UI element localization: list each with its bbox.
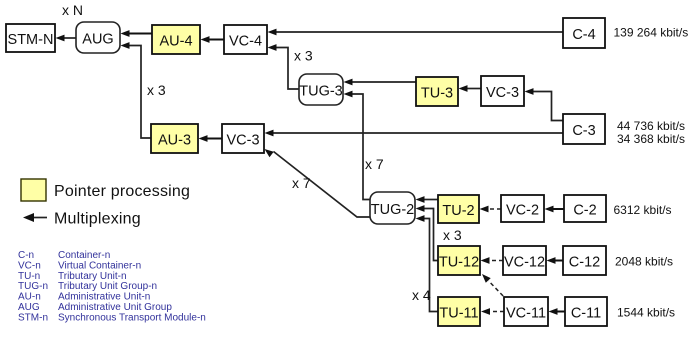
svg-text:VC-12: VC-12: [504, 255, 545, 271]
svg-text:C-11: C-11: [571, 306, 601, 322]
svg-text:C-n: C-n: [18, 250, 34, 261]
svg-text:Virtual Container-n: Virtual Container-n: [58, 260, 141, 271]
svg-text:STM-N: STM-N: [8, 32, 54, 48]
svg-text:TU-12: TU-12: [439, 255, 479, 271]
svg-text:VC-3: VC-3: [226, 133, 259, 149]
svg-text:Pointer processing: Pointer processing: [54, 183, 190, 200]
svg-text:TU-3: TU-3: [421, 86, 453, 102]
svg-text:6312 kbit/s: 6312 kbit/s: [614, 203, 672, 217]
svg-text:C-3: C-3: [572, 123, 595, 139]
svg-text:139 264 kbit/s: 139 264 kbit/s: [614, 26, 689, 40]
svg-text:Tributary Unit Group-n: Tributary Unit Group-n: [58, 281, 157, 292]
svg-text:VC-4: VC-4: [229, 34, 262, 50]
svg-text:VC-11: VC-11: [506, 306, 546, 322]
svg-text:2048 kbit/s: 2048 kbit/s: [615, 255, 673, 269]
svg-text:C-4: C-4: [572, 27, 595, 43]
svg-text:x 3: x 3: [294, 48, 313, 64]
svg-text:AUG: AUG: [18, 302, 40, 313]
svg-text:TUG-2: TUG-2: [371, 202, 415, 218]
svg-text:x 7: x 7: [292, 175, 311, 191]
svg-text:Tributary Unit-n: Tributary Unit-n: [58, 271, 127, 282]
svg-text:x 3: x 3: [147, 82, 166, 98]
svg-text:x 7: x 7: [365, 156, 384, 172]
svg-text:Container-n: Container-n: [58, 250, 110, 261]
svg-text:TUG-n: TUG-n: [18, 281, 48, 292]
svg-text:AU-4: AU-4: [159, 34, 192, 50]
svg-text:x N: x N: [62, 2, 83, 18]
svg-text:C-12: C-12: [569, 255, 600, 271]
svg-text:TU-n: TU-n: [18, 271, 40, 282]
svg-text:TU-2: TU-2: [442, 203, 474, 219]
svg-text:Administrative Unit-n: Administrative Unit-n: [58, 292, 150, 303]
svg-text:VC-3: VC-3: [486, 85, 519, 101]
svg-text:TU-11: TU-11: [439, 306, 478, 322]
svg-text:AUG: AUG: [82, 32, 113, 48]
svg-text:AU-3: AU-3: [158, 133, 191, 149]
svg-text:VC-n: VC-n: [18, 260, 41, 271]
svg-text:C-2: C-2: [573, 203, 596, 219]
svg-text:x 3: x 3: [443, 227, 462, 243]
svg-text:Administrative Unit Group: Administrative Unit Group: [58, 302, 172, 313]
svg-text:x 4: x 4: [412, 287, 431, 303]
svg-text:VC-2: VC-2: [506, 203, 539, 219]
svg-text:34 368 kbit/s: 34 368 kbit/s: [617, 132, 685, 146]
svg-text:AU-n: AU-n: [18, 292, 41, 303]
svg-text:Synchronous Transport Module-n: Synchronous Transport Module-n: [58, 312, 206, 323]
svg-text:Multiplexing: Multiplexing: [54, 211, 141, 228]
svg-text:1544 kbit/s: 1544 kbit/s: [617, 306, 675, 320]
svg-text:STM-n: STM-n: [18, 312, 48, 323]
svg-text:44 736 kbit/s: 44 736 kbit/s: [617, 119, 685, 133]
svg-text:TUG-3: TUG-3: [299, 84, 343, 100]
